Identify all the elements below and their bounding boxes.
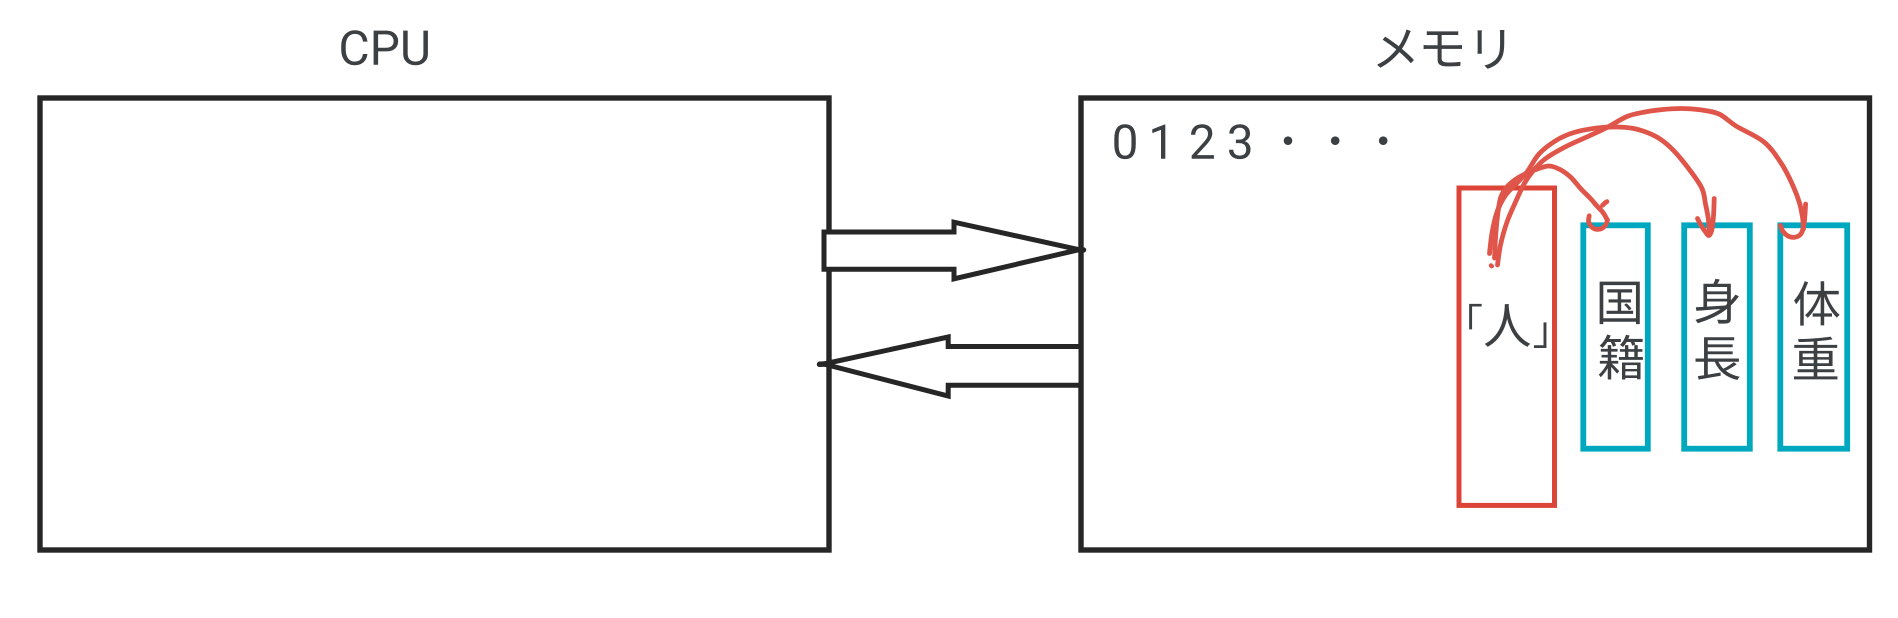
cyan box 体重 (1780, 225, 1847, 448)
block arrow memory to CPU (824, 337, 1081, 396)
label CPU (341, 30, 428, 65)
block arrow CPU to memory (824, 222, 1079, 279)
label 「人」 (1469, 304, 1546, 348)
scribble tail dot inside red box (1489, 263, 1494, 268)
label 国籍 (1599, 282, 1643, 380)
label 体重 (1794, 281, 1840, 379)
memory box (1081, 98, 1870, 550)
arrow tip nub on CPU border (820, 361, 826, 367)
CPU box (40, 98, 829, 550)
cyan box 身長 (1684, 225, 1750, 448)
label 身長 (1695, 279, 1739, 380)
arrowhead at 身長 (1698, 199, 1715, 236)
red box variable 「人」 (1459, 188, 1555, 505)
ellipsis dots (1284, 136, 1388, 145)
red scribble arrow to 身長 (1490, 127, 1710, 254)
cyan box 国籍 (1583, 225, 1648, 448)
address digits 0 1 2 3 (1114, 124, 1250, 159)
red scribble arrow to 体重 (1498, 109, 1804, 266)
arrowhead at 体重 (1781, 204, 1806, 237)
red scribble arrow to 国籍 (1495, 166, 1607, 258)
arrowhead at 国籍 (1588, 216, 1607, 230)
arrowhead tick at 国籍 (1603, 202, 1607, 206)
label メモリ (1377, 29, 1504, 68)
arrow tip nub on memory border (1078, 247, 1084, 253)
